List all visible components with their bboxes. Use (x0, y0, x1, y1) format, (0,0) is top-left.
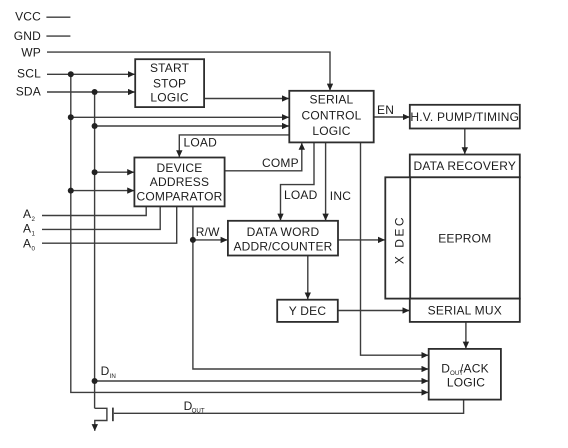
wire A0 to comparator (42, 207, 177, 244)
svg-text:VCC: VCC (15, 9, 41, 23)
node Din junction (92, 378, 98, 384)
wire LOAD from serial control logic to data word addr/counter (281, 143, 315, 221)
svg-text:0: 0 (32, 245, 36, 252)
svg-text:R/W: R/W (196, 225, 220, 239)
svg-text:LOGIC: LOGIC (447, 376, 485, 390)
svg-text:LOAD: LOAD (184, 136, 218, 150)
wire Din to Dout/ACK logic (95, 380, 428, 382)
svg-text:START: START (150, 61, 190, 75)
block START STOP LOGIC (135, 59, 204, 107)
wire SCL branch to serial control logic (71, 116, 289, 118)
wire A2 to comparator (42, 207, 146, 216)
svg-text:SDA: SDA (16, 85, 41, 99)
block DATA RECOVERY (410, 155, 520, 178)
block H.V. PUMP/TIMING (410, 105, 520, 129)
svg-text:2: 2 (32, 216, 36, 223)
wire GND stub (46, 35, 70, 37)
svg-text:COMP: COMP (262, 156, 299, 170)
node SDA junction top (92, 89, 98, 95)
svg-text:D: D (441, 361, 450, 375)
wire SCL to start stop logic (47, 73, 135, 75)
svg-text:A: A (23, 236, 31, 250)
wire SCL vertical bus down and right to Dout/ACK logic (71, 74, 428, 392)
svg-text:DATA WORD: DATA WORD (247, 225, 320, 239)
block DEVICE ADDRESS COMPARATOR (134, 158, 224, 207)
block DOUT/ACK LOGIC (429, 349, 501, 400)
wire start stop logic output to serial control logic (204, 98, 289, 100)
wire SDA branch to serial control logic (95, 125, 289, 127)
wire R/W from comparator down to Dout/ACK logic (193, 207, 428, 370)
node SCL junction comparator (68, 188, 74, 194)
svg-text:COMPARATOR: COMPARATOR (136, 189, 222, 203)
wire Dout from Dout/ACK logic to output transistor gate (114, 400, 464, 414)
wire serial control logic to Dout/ACK logic (361, 143, 429, 356)
svg-text:LOGIC: LOGIC (150, 90, 188, 104)
node SDA junction comparator (92, 169, 98, 175)
wire EN from serial control logic to HV pump (374, 116, 410, 118)
wire INC from serial control logic to data word addr/counter (325, 143, 327, 221)
svg-text:LOGIC: LOGIC (312, 124, 350, 138)
svg-text:EEPROM: EEPROM (438, 231, 491, 245)
wire SDA to start stop logic (47, 91, 135, 93)
svg-text:1: 1 (32, 231, 36, 238)
node SCL junction top (68, 71, 74, 77)
wire HV pump to data recovery (464, 129, 466, 154)
svg-text:X DEC: X DEC (392, 215, 406, 264)
svg-text:ADDR/COUNTER: ADDR/COUNTER (233, 239, 332, 253)
wire COMP from comparator to serial control logic (225, 143, 302, 171)
svg-text:EN: EN (377, 103, 394, 117)
svg-text:D: D (101, 364, 110, 378)
wire data word to Y DEC (307, 256, 309, 300)
svg-text:INC: INC (330, 189, 351, 203)
node R/W junction (190, 237, 196, 243)
svg-text:A: A (23, 222, 31, 236)
svg-text:LOAD: LOAD (284, 188, 318, 202)
wire A1 to comparator (42, 207, 160, 230)
node SCL junction serial (68, 114, 74, 120)
svg-text:SERIAL: SERIAL (310, 93, 354, 107)
wire VCC stub (46, 16, 70, 18)
svg-text:A: A (23, 207, 31, 221)
wire SDA vertical bus down to output transistor drain (94, 92, 96, 408)
wire Y DEC to serial mux (338, 310, 409, 312)
block Y DEC (277, 300, 338, 322)
svg-text:CONTROL: CONTROL (301, 109, 361, 123)
svg-text:ADDRESS: ADDRESS (150, 175, 209, 189)
node SDA junction serial (92, 123, 98, 129)
svg-text:OUT: OUT (192, 408, 205, 415)
wire serial mux to Dout/ACK logic (465, 322, 467, 348)
svg-text:STOP: STOP (153, 77, 186, 91)
svg-text:SERIAL MUX: SERIAL MUX (428, 304, 502, 318)
transistor output MOSFET drain-source path (95, 408, 107, 430)
wire SCL branch to device address comparator (71, 190, 134, 192)
svg-text:Y DEC: Y DEC (289, 304, 327, 318)
svg-text:H.V. PUMP/TIMING: H.V. PUMP/TIMING (410, 110, 519, 124)
svg-text:GND: GND (14, 29, 41, 43)
transistor gate bar (112, 408, 114, 422)
svg-text:DEVICE: DEVICE (157, 161, 203, 175)
block SERIAL CONTROL LOGIC (289, 91, 373, 143)
svg-text:IN: IN (110, 373, 116, 380)
wire WP to serial control logic top (47, 52, 330, 90)
svg-text:WP: WP (21, 46, 41, 60)
wire LOAD from serial control logic to device address comparator (179, 135, 289, 157)
wire data word to X DEC (338, 239, 385, 241)
block EEPROM (410, 177, 520, 298)
wire SDA branch to device address comparator (95, 171, 134, 173)
wire R/W branch to data word addr/counter (193, 239, 227, 241)
svg-text:DATA RECOVERY: DATA RECOVERY (413, 159, 516, 173)
svg-text:/ACK: /ACK (460, 361, 489, 375)
svg-text:SCL: SCL (17, 67, 41, 81)
block SERIAL MUX (410, 299, 520, 322)
block DATA WORD ADDR/COUNTER (228, 221, 338, 256)
block X DEC (385, 177, 410, 298)
